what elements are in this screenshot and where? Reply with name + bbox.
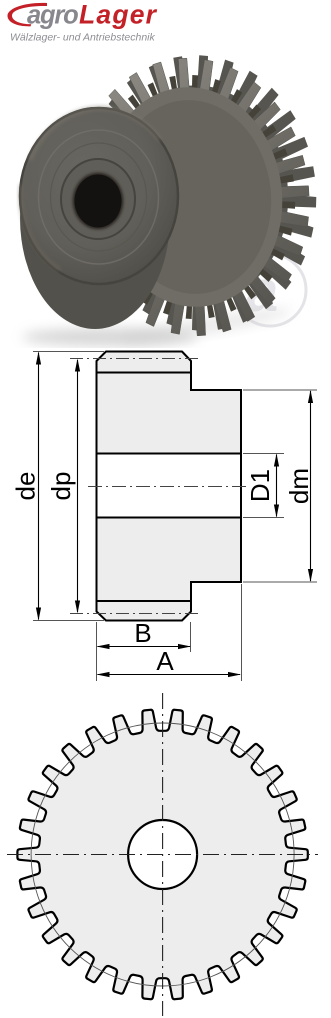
section drawing xyxy=(0,330,331,690)
horizontal center line xyxy=(7,854,318,856)
front teeth gaps xyxy=(89,75,295,319)
svg-text:A: A xyxy=(156,646,174,676)
center line xyxy=(88,486,250,488)
watermark circle ka xyxy=(234,254,306,326)
tooth cap bottom xyxy=(97,601,192,621)
hub rim highlight xyxy=(30,108,160,160)
gear product photo xyxy=(0,46,331,348)
D1 extension lines xyxy=(243,454,284,518)
front teeth ring xyxy=(75,58,309,336)
bore band xyxy=(95,454,242,518)
hub section fill xyxy=(191,390,241,582)
front view drawing xyxy=(0,690,331,1018)
dimension dm xyxy=(284,390,314,582)
dm extension lines xyxy=(243,390,317,582)
svg-text:B: B xyxy=(134,618,151,648)
svg-text:Lager: Lager xyxy=(79,0,158,30)
svg-text:Wälzlager- und Antriebstechnik: Wälzlager- und Antriebstechnik xyxy=(10,32,155,44)
pitch line top xyxy=(70,358,202,360)
dimension dp xyxy=(46,359,80,614)
dimension de xyxy=(11,352,42,621)
dimension B xyxy=(97,618,192,649)
svg-text:D1: D1 xyxy=(245,469,275,502)
hub left edge light xyxy=(21,185,60,270)
center hole xyxy=(128,820,197,889)
hub side xyxy=(20,107,170,329)
hub inner ring 2 xyxy=(51,143,147,251)
logo agroLager xyxy=(0,0,331,50)
gear front profile xyxy=(17,710,307,999)
svg-text:dm: dm xyxy=(284,468,314,504)
svg-text:agro: agro xyxy=(27,2,78,30)
bore hole xyxy=(75,175,122,228)
svg-text:de: de xyxy=(11,472,41,501)
svg-text:dp: dp xyxy=(46,472,76,501)
pitch line bottom xyxy=(70,613,202,615)
hub face xyxy=(20,108,178,284)
gear body section fill xyxy=(97,373,192,602)
gear disc face xyxy=(91,78,293,316)
bore lines xyxy=(97,454,242,518)
dimension D1 xyxy=(245,454,279,518)
logo swoosh xyxy=(8,3,48,26)
bore dark ring xyxy=(73,173,124,230)
dimension A xyxy=(97,646,242,677)
back teeth ring xyxy=(84,55,317,330)
tooth cap top xyxy=(97,352,192,373)
hub boss ring xyxy=(61,159,135,239)
pitch circle xyxy=(31,723,294,986)
de extension lines xyxy=(33,352,104,621)
vertical center line xyxy=(162,693,164,1016)
section outline xyxy=(97,373,242,602)
hub machining ring xyxy=(39,130,159,264)
gear shadow xyxy=(22,328,198,346)
B A extension lines xyxy=(97,584,242,681)
